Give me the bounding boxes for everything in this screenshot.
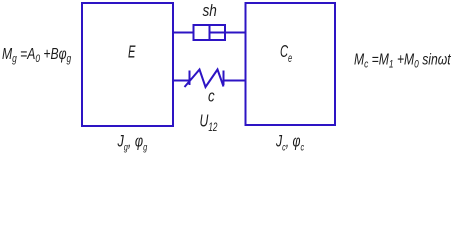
svg-text:Mc =M1 +M0 sinωt: Mc =M1 +M0 sinωt [354,51,451,71]
svg-text:Ce: Ce [280,41,293,65]
label Jg phig [117,132,148,153]
svg-text:E: E [128,42,136,62]
wire spring left [173,80,190,82]
label U12 [200,111,218,134]
damper sh body [194,25,226,40]
block Ce (load inertia Jc) [246,3,336,125]
svg-text:Jg, φg: Jg, φg [117,132,148,153]
wire spring right [224,80,246,82]
svg-text:Jc, φc: Jc, φc [275,133,304,153]
label Mg equation [2,45,72,65]
wire damper right [225,32,246,34]
label Mc equation [354,51,451,71]
label c [208,87,215,106]
svg-text:c: c [208,87,215,106]
svg-text:U12: U12 [200,111,218,134]
spring c body [185,70,224,88]
svg-text:sh: sh [203,1,217,20]
wire damper left [173,32,194,34]
label Ce [280,41,293,65]
label E [128,42,136,62]
label Jc phic [275,133,304,153]
svg-text:Mg =A0 +Bφg: Mg =A0 +Bφg [2,45,72,65]
block E (generator inertia Jg) [82,3,173,126]
label sh [203,1,217,20]
